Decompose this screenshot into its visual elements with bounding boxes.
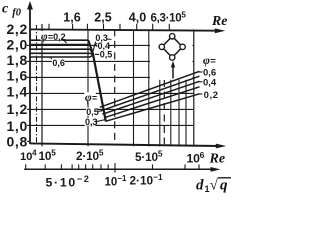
curve phi=0.4 subcritical xyxy=(30,48,90,50)
svg-text:2,0: 2,0 xyxy=(6,37,28,53)
secondary axis line xyxy=(24,168,216,170)
inset flow arrow xyxy=(171,61,175,79)
svg-text:2,5: 2,5 xyxy=(94,11,111,25)
left y-axis xyxy=(29,8,31,144)
curve phi=0.3 subcritical xyxy=(30,44,90,46)
top frame axis xyxy=(30,29,216,30)
fan phi=0.2 xyxy=(106,94,200,122)
curve label phi=0,2 xyxy=(41,31,63,40)
bottom axis arrowhead xyxy=(216,144,227,149)
svg-text:0,4: 0,4 xyxy=(203,77,217,88)
leader 0,3 upper xyxy=(93,40,97,53)
horizontal gridline c=1.8 xyxy=(30,60,194,62)
curve label 0,5 upper xyxy=(99,52,110,59)
vertical gridline Re=6e5 xyxy=(159,29,161,146)
svg-text:0,6: 0,6 xyxy=(52,58,65,68)
svg-text:φ=: φ= xyxy=(85,92,97,104)
leader 0,6 xyxy=(50,57,53,60)
curve label 0,5 fan xyxy=(86,108,97,116)
svg-text:Re: Re xyxy=(211,13,227,28)
horizontal gridline c=2.0 xyxy=(30,44,194,46)
vertical gridline Re=5e5 xyxy=(148,29,150,146)
curve label 0,4 upper xyxy=(97,43,108,50)
curve label 0,3 upper xyxy=(95,35,106,42)
vertical gridline Re=1e6 xyxy=(193,29,195,146)
vertical gridline Re=8e5 xyxy=(178,29,180,146)
svg-text:1,6: 1,6 xyxy=(63,11,80,25)
top axis arrowhead xyxy=(215,28,226,33)
vertical gridline Re=9e5 xyxy=(185,29,187,146)
fan phi=0.5 xyxy=(101,76,200,111)
svg-text:f0: f0 xyxy=(12,7,21,18)
secondary axis ticks xyxy=(26,163,199,173)
svg-text:0,8: 0,8 xyxy=(6,133,28,149)
horizontal gridline c=1.2 xyxy=(30,108,194,110)
leader 0,4 upper xyxy=(95,43,98,46)
label phi= fan left xyxy=(84,92,96,101)
supercritical fan lines xyxy=(100,71,200,121)
svg-text:Re: Re xyxy=(209,152,226,167)
svg-text:2,2: 2,2 xyxy=(6,21,28,37)
horizontal gridline c=1.0 xyxy=(30,124,194,126)
tube arrangement inset: rotated square xyxy=(162,36,183,57)
left axis ticks xyxy=(27,45,30,141)
y-axis arrowhead xyxy=(27,1,33,10)
svg-text:0,2: 0,2 xyxy=(204,90,219,101)
leader 0,3 fan xyxy=(96,120,106,122)
svg-text:1,2: 1,2 xyxy=(6,101,28,117)
svg-text:√: √ xyxy=(210,178,219,194)
curve phi=0.6 subcritical xyxy=(30,56,90,58)
vertical gridline Re=4e5 xyxy=(133,29,135,146)
svg-text:φ=: φ= xyxy=(203,53,216,67)
dashed vertical Re=3e5 xyxy=(114,29,116,143)
leader 0,5 upper xyxy=(95,53,99,55)
svg-text:d: d xyxy=(196,178,204,194)
axis break chain line xyxy=(36,25,38,145)
svg-text:1,6: 1,6 xyxy=(6,68,28,84)
fan phi=0.3 xyxy=(104,87,200,118)
white inset box xyxy=(150,30,193,80)
leader 0,5 fan xyxy=(97,110,102,112)
vertical gridline Re=2e5 xyxy=(87,29,89,146)
svg-text:4,0: 4,0 xyxy=(129,11,146,25)
vertical gridline Re=1e5 xyxy=(41,24,43,146)
curve label 0,6 xyxy=(52,58,65,68)
svg-text:1,8: 1,8 xyxy=(6,52,28,68)
curve phi=0.5 subcritical xyxy=(30,52,90,54)
transition drop line xyxy=(93,53,106,121)
svg-text:6,3·105: 6,3·105 xyxy=(151,11,187,25)
leader phi=0,2 xyxy=(62,38,66,43)
fan phi=0.4 xyxy=(102,81,199,114)
curve phi=0.2 subcritical xyxy=(30,40,93,57)
svg-text:c: c xyxy=(2,2,9,17)
svg-text:1,0: 1,0 xyxy=(6,118,28,134)
svg-text:q: q xyxy=(220,178,228,194)
horizontal gridline c=1.4 xyxy=(30,92,194,94)
top axis ticks xyxy=(49,24,169,31)
inset tube circles xyxy=(159,34,185,61)
svg-text:1,4: 1,4 xyxy=(6,84,28,100)
dashed vertical Re=6.3e5 (below inset box) xyxy=(163,80,165,144)
secondary axis name d1 sqrt q xyxy=(196,178,231,195)
top tick labels xyxy=(63,11,146,25)
bottom frame axis xyxy=(30,143,218,146)
svg-text:0,3: 0,3 xyxy=(85,117,98,127)
horizontal gridline c=1.6 xyxy=(30,76,194,78)
svg-text:0,5: 0,5 xyxy=(100,50,113,60)
secondary axis arrowhead xyxy=(211,167,221,172)
svg-text:φ=0,2: φ=0,2 xyxy=(41,31,66,43)
svg-text:0,5: 0,5 xyxy=(86,107,99,117)
vertical gridline Re=7e5 xyxy=(170,29,172,146)
leader 0,2 right xyxy=(198,93,203,95)
curve label 0,3 fan xyxy=(85,118,96,126)
bottom tick labels xyxy=(20,148,205,166)
leader 0,6 right xyxy=(198,71,203,73)
fan phi=0.6 xyxy=(100,71,200,107)
left tick labels xyxy=(6,21,28,149)
convergence wedge xyxy=(89,40,94,53)
leader 0,4 right xyxy=(198,81,203,83)
